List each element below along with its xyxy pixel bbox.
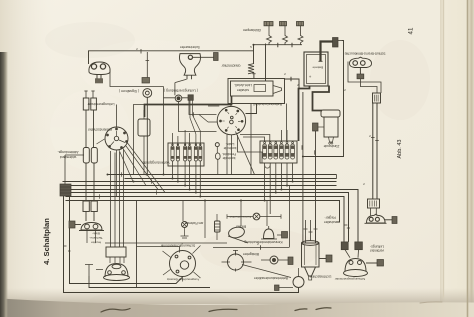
svg-text:widerstand: widerstand [60, 155, 77, 159]
svg-text:Batteriezündschloß: Batteriezündschloß [253, 102, 282, 106]
svg-text:verbinder: verbinder [369, 249, 384, 253]
svg-text:Lade-: Lade- [226, 142, 235, 146]
svg-text:Abblendungs-: Abblendungs- [58, 150, 79, 154]
svg-text:Glühlampen: Glühlampen [243, 28, 261, 32]
svg-text:( Leitungsverbindung ): ( Leitungsverbindung ) [164, 89, 198, 93]
svg-text:Regler-: Regler- [324, 216, 335, 220]
svg-text:4. Schaltplan: 4. Schaltplan [42, 218, 51, 265]
svg-text:Scheinwerfer: Scheinwerfer [179, 45, 200, 49]
svg-text:Kennzeichenbel.: Kennzeichenbel. [229, 215, 251, 219]
svg-text:kontrolle: kontrolle [222, 156, 235, 160]
svg-text:Batterie: Batterie [312, 66, 323, 70]
svg-text:Blinkgeber: Blinkgeber [242, 252, 259, 256]
svg-text:Zündspule: Zündspule [323, 144, 339, 148]
svg-text:Blinker: Blinker [235, 225, 246, 229]
svg-text:41: 41 [408, 27, 415, 34]
svg-text:Fernlicht-: Fernlicht- [222, 152, 236, 156]
svg-text:( Signalhorn ): ( Signalhorn ) [119, 89, 139, 93]
svg-text:+: + [308, 74, 311, 79]
svg-text:Ausgewuchtete-Bausatz: Ausgewuchtete-Bausatz [166, 278, 199, 282]
svg-text:Tachome-: Tachome- [89, 236, 103, 240]
svg-text:Schwunglichtelektronik: Schwunglichtelektronik [160, 244, 195, 248]
svg-text:schalter: schalter [323, 220, 336, 224]
svg-text:schalter: schalter [236, 88, 249, 92]
svg-text:Verbindungsplatte: Verbindungsplatte [142, 161, 169, 165]
svg-text:Kennzeichenbeleuchtung: Kennzeichenbeleuchtung [244, 240, 282, 244]
svg-text:Gleichrichter: Gleichrichter [221, 64, 241, 68]
svg-text:Schwungmagnetzünder: Schwungmagnetzünder [335, 277, 365, 281]
svg-text:leuchte: leuchte [91, 241, 101, 245]
svg-text:Leitungs-: Leitungs- [370, 245, 384, 249]
svg-text:Lichtmaschine: Lichtmaschine [310, 275, 332, 279]
svg-text:Abblendschalter: Abblendschalter [87, 128, 112, 132]
svg-text:Licht-Anlaß-: Licht-Anlaß- [234, 83, 252, 87]
svg-text:kontrolle: kontrolle [223, 146, 236, 150]
svg-text:Abb. 43: Abb. 43 [397, 140, 403, 159]
svg-text:Schluß-Brems-Blinkleuchte: Schluß-Brems-Blinkleuchte [344, 52, 385, 56]
svg-text:Betriebsstundenzähler: Betriebsstundenzähler [253, 276, 288, 280]
svg-text:Blink-: Blink- [92, 232, 100, 236]
svg-text:am Rahmen: am Rahmen [185, 221, 204, 225]
svg-text:Leitungsverbinder: Leitungsverbinder [87, 102, 115, 106]
